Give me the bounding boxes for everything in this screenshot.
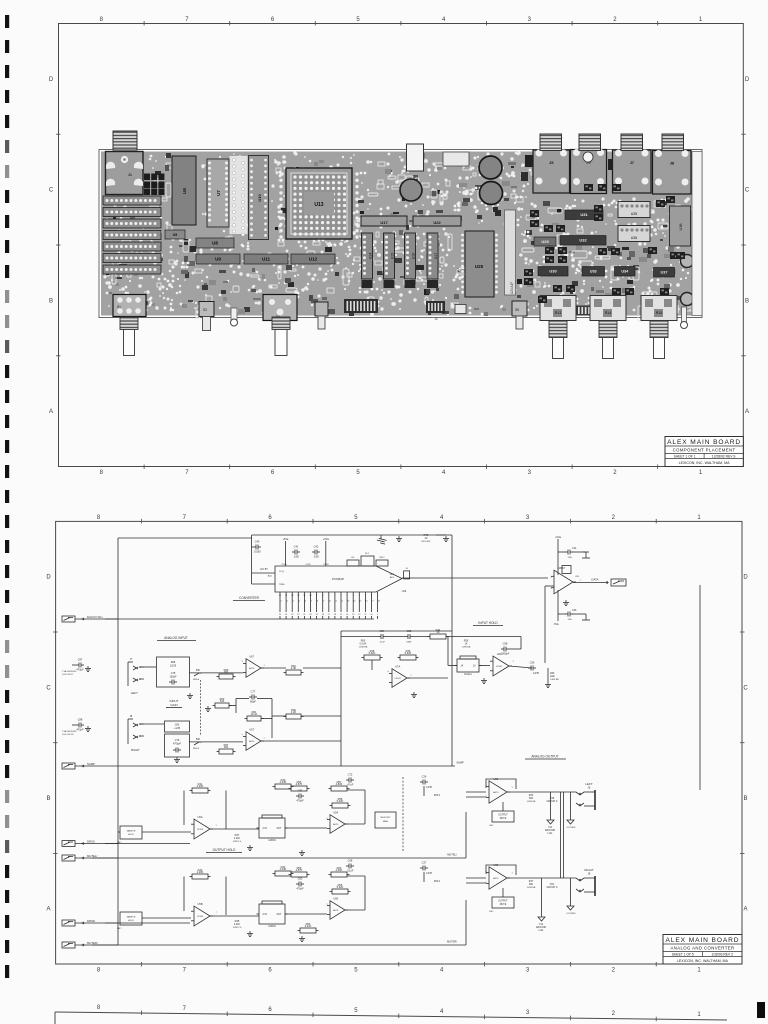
MUX/CRV box — [375, 812, 396, 828]
svg-text:C40: C40 — [255, 540, 260, 544]
svg-text:U25: U25 — [475, 264, 484, 269]
svg-text:3: 3 — [528, 17, 532, 23]
capacitor C90 (round) — [479, 156, 502, 179]
svg-text:1: 1 — [699, 17, 703, 23]
ground lug label right — [536, 911, 547, 932]
svg-text:1/28/93 REV 2: 1/28/93 REV 2 — [711, 953, 733, 957]
svg-text:C77: C77 — [251, 690, 256, 694]
svg-text:A/C BY: A/C BY — [260, 568, 268, 571]
svg-text:U14: U14 — [369, 253, 373, 259]
plug above jack 5 — [540, 134, 562, 151]
svg-text:A670: A670 — [493, 877, 499, 880]
input filter box C78/R68 — [157, 657, 190, 687]
svg-text:13: 13 — [352, 614, 355, 616]
jack J8 input RIGHT — [128, 715, 144, 752]
resistor R40 — [273, 778, 294, 789]
capacitor C72 — [346, 773, 354, 787]
svg-text:U67: U67 — [249, 655, 254, 659]
svg-text:7: 7 — [183, 515, 187, 521]
sheet 2 border frame — [56, 521, 742, 964]
svg-text:J7: J7 — [630, 160, 635, 165]
plug above jack 6 — [579, 134, 601, 151]
jack J5 — [533, 150, 570, 194]
svg-text:RIGHT: RIGHT — [584, 868, 594, 872]
svg-text:LBO: LBO — [117, 928, 122, 930]
svg-text:U54: U54 — [333, 811, 338, 815]
svg-text:7: 7 — [185, 17, 189, 23]
svg-text:A670: A670 — [333, 909, 339, 912]
black parts between jacks — [521, 155, 700, 181]
svg-text:D: D — [46, 575, 51, 581]
svg-text:MUTER/: MUTER/ — [87, 941, 98, 945]
svg-text:24: 24 — [285, 614, 288, 616]
resistor R41 — [190, 782, 211, 793]
svg-text:1K: 1K — [436, 630, 439, 634]
switch U53 LM604 — [257, 901, 288, 928]
svg-text:C26: C26 — [422, 775, 427, 779]
tag MUTEL — [62, 854, 118, 861]
svg-text:4: 4 — [440, 1009, 444, 1015]
capacitor C88 ground lug — [62, 718, 91, 737]
svg-text:10.1K: 10.1K — [251, 712, 258, 716]
svg-text:LEFT: LEFT — [585, 782, 593, 786]
svg-text:U31: U31 — [580, 212, 588, 217]
DAC pin comb — [279, 592, 381, 619]
svg-text:14: 14 — [346, 614, 349, 616]
svg-text:GROUND: GROUND — [536, 927, 547, 929]
pot R13 — [540, 296, 576, 321]
label OUTPUT HOLD — [206, 848, 242, 853]
svg-text:J4: J4 — [434, 317, 438, 321]
svg-text:J7: J7 — [130, 658, 133, 661]
svg-text:U13: U13 — [314, 202, 323, 208]
svg-text:R66 B: R66 B — [193, 748, 200, 750]
svg-text:B: B — [46, 796, 50, 802]
pot R14 — [590, 296, 626, 321]
svg-text:U17: U17 — [380, 220, 388, 225]
standoff pin — [682, 307, 687, 322]
connector J2 — [407, 144, 424, 171]
svg-text:LUG ON J8: LUG ON J8 — [62, 734, 74, 736]
svg-text:LF347: LF347 — [496, 666, 503, 668]
svg-text:40: 40 — [425, 537, 428, 540]
svg-text:1/4W BB: 1/4W BB — [527, 887, 536, 889]
svg-text:LUG ON J7: LUG ON J7 — [62, 674, 74, 676]
svg-text:J8: J8 — [130, 715, 133, 718]
svg-text:6: 6 — [305, 601, 307, 603]
label C48 GROUP — [546, 797, 557, 803]
capacitor C41 — [292, 545, 300, 559]
svg-text:U33: U33 — [590, 270, 597, 274]
capacitor C55 — [405, 629, 413, 644]
jack J6 — [571, 149, 607, 194]
svg-text:U7A: U7A — [395, 665, 400, 669]
svg-text:U17: U17 — [434, 253, 438, 259]
svg-text:3: 3 — [526, 515, 530, 521]
svg-text:2.21K: 2.21K — [305, 924, 312, 928]
svg-text:4.3K: 4.3K — [291, 710, 297, 714]
vertical pair bus to jacks — [561, 792, 564, 878]
svg-text:5: 5 — [354, 1008, 358, 1014]
jack J6 LEFT out — [576, 782, 595, 810]
svg-text:1/4W 1%: 1/4W 1% — [233, 841, 242, 843]
svg-text:D: D — [743, 575, 748, 581]
svg-text:BC: BC — [351, 557, 354, 559]
svg-text:22: 22 — [297, 614, 300, 616]
ground lug label left — [545, 814, 556, 835]
svg-text:2.26K: 2.26K — [336, 868, 343, 872]
svg-text:J5: J5 — [549, 160, 554, 165]
svg-text:OUTPUT HOLD: OUTPUT HOLD — [213, 848, 236, 852]
op-amp U6A — [241, 655, 265, 678]
IC U25 — [461, 231, 498, 297]
op-amp U28 — [402, 566, 582, 594]
switch U51 LM604 — [257, 815, 288, 842]
svg-text:D: D — [49, 77, 54, 83]
svg-text:U67: U67 — [249, 728, 254, 732]
IC U22 — [413, 216, 461, 226]
svg-text:SAMP: SAMP — [456, 761, 464, 765]
svg-text:3: 3 — [287, 601, 289, 603]
svg-text:U34: U34 — [621, 270, 629, 274]
svg-text:10/25: 10/25 — [170, 665, 177, 668]
svg-text:-5Va: -5Va — [553, 622, 559, 626]
resistor R65 — [330, 883, 351, 894]
svg-text:HOLD: HOLD — [128, 920, 134, 922]
svg-text:14: 14 — [285, 595, 288, 597]
DATA output tag — [573, 578, 626, 587]
svg-text:SAMP: SAMP — [87, 762, 95, 766]
capacitor C81 — [296, 789, 304, 803]
svg-text:7: 7 — [311, 601, 313, 603]
svg-text:R13: R13 — [555, 311, 562, 315]
svg-text:15: 15 — [359, 601, 362, 603]
resistor R57 — [329, 780, 350, 791]
PCB board body — [99, 150, 702, 318]
svg-text:1: 1 — [697, 515, 701, 521]
pot S4 — [263, 295, 297, 321]
label C51 GROUP — [546, 883, 557, 889]
resistor R33 label — [527, 794, 536, 803]
ground far top — [376, 535, 386, 544]
svg-text:A: A — [745, 409, 749, 415]
svg-text:.1/50: .1/50 — [567, 619, 573, 621]
svg-text:OUTGND: OUTGND — [566, 827, 576, 829]
IC U30 — [538, 267, 568, 277]
svg-text:26.7: 26.7 — [365, 553, 370, 555]
svg-text:12: 12 — [358, 614, 361, 616]
svg-text:5: 5 — [299, 601, 301, 603]
IC U11 — [244, 254, 288, 264]
ribbon strip UPE — [505, 210, 516, 295]
svg-text:TRIM: TRIM — [279, 584, 285, 586]
svg-text:540: 540 — [220, 699, 225, 703]
svg-text:S1: S1 — [117, 305, 121, 309]
IC U10 — [249, 156, 269, 240]
svg-text:13/35: 13/35 — [533, 672, 540, 675]
svg-text:68pF: 68pF — [250, 700, 256, 704]
svg-text:3: 3 — [526, 968, 530, 974]
capacitor C68 — [346, 859, 354, 873]
svg-text:7: 7 — [579, 580, 581, 582]
svg-text:LF347: LF347 — [395, 678, 402, 680]
svg-text:4.3K: 4.3K — [291, 666, 297, 670]
IC U33 — [582, 267, 605, 277]
IC U36 — [618, 226, 650, 242]
svg-text:ANALOG INPUT: ANALOG INPUT — [164, 636, 188, 640]
svg-text:68pF: 68pF — [407, 642, 413, 644]
svg-text:600: 600 — [529, 797, 534, 800]
svg-text:SHEET 1 OF 1: SHEET 1 OF 1 — [674, 455, 696, 459]
IC U7 — [207, 159, 229, 227]
sheet 1 border frame — [59, 24, 744, 467]
svg-text:2 IN: 2 IN — [263, 827, 268, 830]
svg-text:1/4W BB: 1/4W BB — [550, 679, 559, 681]
svg-text:C81: C81 — [298, 789, 303, 793]
svg-text:GROUP C: GROUP C — [546, 800, 557, 803]
wires out right — [466, 878, 576, 911]
svg-text:MUTEL/: MUTEL/ — [87, 854, 97, 858]
svg-text:8: 8 — [100, 17, 104, 23]
svg-text:A670: A670 — [249, 740, 255, 743]
switch S3 — [315, 302, 328, 316]
svg-text:11: 11 — [303, 595, 306, 597]
svg-text:LBO: LBO — [489, 911, 494, 913]
discrete component clusters right-middle — [524, 184, 685, 303]
switch S5 — [512, 301, 527, 316]
svg-text:4: 4 — [293, 601, 295, 603]
wires out left — [466, 792, 576, 814]
svg-text:C27: C27 — [422, 861, 427, 865]
svg-text:20: 20 — [309, 614, 312, 616]
svg-text:DRSS: DRSS — [87, 839, 95, 843]
resistor R45 — [398, 649, 419, 660]
IC U38 — [670, 206, 691, 246]
connector J3 comb — [576, 306, 616, 316]
capacitor C77 — [249, 690, 257, 704]
resistor R44 — [428, 628, 449, 639]
svg-text:2.26K: 2.26K — [197, 870, 204, 874]
svg-text:15: 15 — [279, 595, 282, 597]
svg-text:4: 4 — [347, 595, 349, 597]
resistor R37 label — [527, 880, 536, 889]
svg-text:1: 1 — [263, 665, 265, 667]
sheet 3 partial frame (next page edge) — [55, 1005, 727, 1024]
capacitor C59 — [528, 661, 540, 676]
output mute box right — [489, 888, 514, 913]
svg-text:10: 10 — [329, 601, 332, 603]
plug above jack 7 — [621, 134, 643, 151]
svg-text:U15: U15 — [391, 253, 395, 259]
svg-text:470pF: 470pF — [296, 799, 304, 803]
switch S1 — [113, 295, 146, 317]
svg-text:5: 5 — [354, 515, 358, 521]
svg-text:5: 5 — [354, 968, 358, 974]
svg-text:5.62K: 5.62K — [337, 799, 344, 803]
svg-text:A670: A670 — [493, 791, 499, 794]
resistor R60a — [284, 664, 304, 675]
resistor R48 — [362, 649, 383, 660]
svg-text:U7: U7 — [216, 190, 221, 196]
svg-text:B: B — [745, 298, 749, 304]
svg-text:6: 6 — [268, 1007, 272, 1013]
svg-text:SAMPLE: SAMPLE — [127, 830, 136, 833]
svg-text:C42: C42 — [314, 545, 319, 549]
svg-text:19: 19 — [315, 614, 318, 616]
svg-text:U36: U36 — [631, 236, 637, 240]
svg-text:ANALOG OUTPUT: ANALOG OUTPUT — [531, 755, 558, 759]
svg-text:7: 7 — [183, 1006, 187, 1012]
label ANALOG OUTPUT — [525, 755, 566, 760]
svg-text:4: 4 — [440, 515, 444, 521]
svg-text:+5Va: +5Va — [555, 535, 561, 539]
connector plug (top-left) — [113, 131, 137, 150]
svg-text:C: C — [743, 685, 748, 691]
svg-text:HOLD: HOLD — [128, 834, 134, 836]
resistor R70 — [422, 533, 449, 543]
svg-text:2: 2 — [377, 595, 379, 597]
svg-text:U30: U30 — [549, 269, 557, 274]
jack J8 — [653, 150, 692, 194]
resistor R60b — [329, 866, 350, 877]
svg-text:8: 8 — [322, 595, 324, 597]
svg-text:DATA: DATA — [591, 578, 598, 582]
jack J8 RIGHT out — [576, 868, 595, 896]
op-amp U30 right out — [485, 863, 516, 889]
resistor R66 — [298, 922, 319, 933]
wires input left — [140, 631, 452, 699]
svg-text:1000pF: 1000pF — [501, 652, 510, 656]
op-amp U56 — [326, 897, 348, 920]
DAC U27 PCM64P — [275, 564, 402, 592]
IC U9 — [196, 254, 240, 264]
IC U34 — [615, 267, 636, 277]
svg-text:ADJ: ADJ — [268, 575, 272, 578]
svg-text:BIAS: BIAS — [383, 820, 389, 823]
svg-text:4: 4 — [442, 470, 446, 476]
svg-text:14: 14 — [353, 601, 356, 603]
IC U21 small white — [443, 152, 469, 166]
resistor R67 — [217, 743, 236, 754]
svg-text:Y1A: Y1A — [548, 826, 553, 829]
IC U5 — [165, 230, 185, 239]
capacitor C54 — [378, 629, 386, 644]
wires input-hold — [341, 637, 532, 698]
test point pin — [231, 308, 237, 320]
ground sym out right — [566, 878, 576, 915]
svg-text:1: 1 — [697, 1012, 701, 1018]
svg-text:6: 6 — [334, 595, 336, 597]
svg-text:U56: U56 — [333, 897, 338, 901]
svg-text:SAMPLE: SAMPLE — [127, 916, 136, 919]
svg-text:13: 13 — [347, 601, 350, 603]
svg-text:7: 7 — [263, 738, 265, 740]
svg-text:U9: U9 — [215, 257, 221, 262]
svg-text:1: 1 — [215, 825, 217, 827]
svg-text:GROUP C: GROUP C — [546, 886, 557, 889]
resistor R61 — [245, 710, 264, 721]
svg-text:LBO: LBO — [489, 825, 494, 827]
svg-text:5: 5 — [241, 734, 243, 736]
svg-text:S5: S5 — [515, 308, 519, 312]
IC U29 — [534, 237, 556, 246]
resistor R62 — [213, 697, 232, 708]
svg-text:C44: C44 — [572, 547, 577, 550]
svg-text:C55: C55 — [407, 629, 412, 633]
svg-text:C72: C72 — [348, 773, 353, 777]
svg-text:2 IN: 2 IN — [263, 913, 268, 916]
svg-text:OUTPUT: OUTPUT — [498, 815, 508, 817]
svg-text:ALEX MAIN BOARD: ALEX MAIN BOARD — [666, 937, 740, 944]
svg-text:Y1A GROUND: Y1A GROUND — [62, 670, 77, 673]
svg-text:MUTER/: MUTER/ — [447, 940, 457, 944]
svg-text:DG211: DG211 — [464, 673, 472, 676]
svg-text:2: 2 — [613, 17, 617, 23]
svg-text:1K: 1K — [465, 643, 468, 646]
svg-text:18: 18 — [377, 601, 380, 603]
op-amp U24 — [490, 652, 514, 676]
dashed gain link — [200, 680, 202, 736]
svg-text:C58: C58 — [503, 642, 508, 646]
svg-text:390: 390 — [224, 670, 229, 674]
svg-text:12: 12 — [297, 595, 300, 597]
svg-text:U10: U10 — [257, 194, 262, 202]
solder region (bright) — [230, 156, 248, 236]
svg-text:LEXICON, INC. WALTHAM, MA: LEXICON, INC. WALTHAM, MA — [677, 959, 729, 963]
svg-text:18: 18 — [322, 614, 325, 616]
svg-text:13/35: 13/35 — [426, 787, 432, 789]
svg-text:2: 2 — [550, 577, 552, 579]
schematic interconnect main lines — [92, 535, 700, 945]
svg-text:25: 25 — [279, 614, 282, 616]
component cluster right of J1 — [144, 174, 164, 196]
svg-text:OUT: OUT — [276, 827, 282, 830]
tag SAMP — [62, 762, 118, 769]
svg-text:GROUND: GROUND — [545, 830, 556, 832]
-5Va flag — [323, 537, 329, 566]
svg-text:LUG: LUG — [539, 930, 544, 932]
svg-text:7: 7 — [183, 968, 187, 974]
svg-text:3: 3 — [528, 470, 532, 476]
capacitor C87 ground lug — [62, 658, 91, 677]
IC U8 — [196, 238, 234, 248]
switch U23 DG211 — [455, 656, 482, 676]
svg-text:C59: C59 — [530, 661, 535, 665]
svg-text:470pF: 470pF — [76, 668, 84, 672]
svg-text:DAC/IO VD+: DAC/IO VD+ — [87, 615, 103, 619]
svg-text:5.62K: 5.62K — [405, 651, 412, 655]
U28 feedback vertical — [545, 586, 554, 663]
svg-text:INPUT HOLD: INPUT HOLD — [478, 621, 498, 625]
svg-text:4700pF: 4700pF — [173, 743, 182, 746]
svg-text:DRSR: DRSR — [87, 919, 95, 923]
svg-text:COM: COM — [306, 564, 311, 566]
svg-text:9: 9 — [316, 595, 318, 597]
IC U32 — [560, 236, 606, 246]
svg-text:LF353: LF353 — [197, 916, 204, 918]
svg-text:50K: 50K — [196, 738, 201, 741]
svg-text:U32: U32 — [579, 238, 587, 243]
resistor networks U14-U16,U18 (vertical) — [362, 233, 439, 294]
svg-text:2: 2 — [359, 595, 361, 597]
capacitor C44 — [555, 535, 590, 575]
resistor R43 — [190, 868, 211, 879]
capacitor C80 — [165, 721, 190, 732]
svg-text:2: 2 — [612, 968, 616, 974]
svg-text:8: 8 — [97, 515, 101, 521]
IC U31 — [565, 210, 603, 220]
svg-text:C88: C88 — [78, 718, 83, 722]
